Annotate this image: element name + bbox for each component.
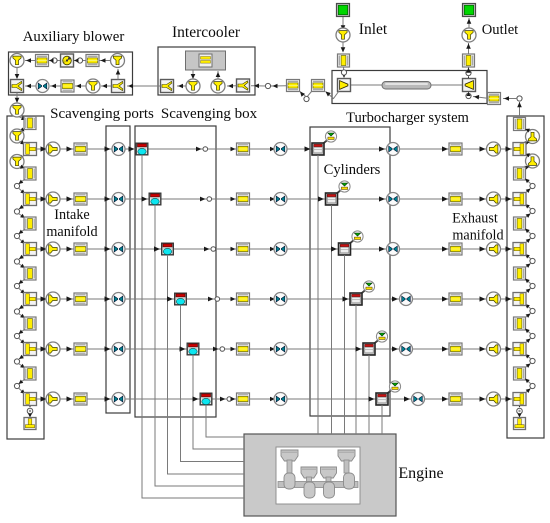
row4 exhaust runner tee <box>513 293 526 306</box>
row4 arrow into cylinder <box>343 296 349 301</box>
row4 scavenging valve <box>175 293 187 305</box>
wire merge y161 up to component <box>525 153 531 157</box>
wire bypass valve to outlet square <box>25 84 36 89</box>
row4 arrow into exhaust runner tee <box>506 296 512 301</box>
wire inlet to ambient split <box>341 17 346 31</box>
row3 intake flowsplit circle <box>46 242 60 256</box>
label Scavenging ports <box>50 106 154 122</box>
wire row1 tee down to junction <box>19 155 26 160</box>
row3 arrow into transfer pipe <box>231 247 236 252</box>
row2 exhaust flowsplit circle <box>487 192 501 206</box>
wire row3 main flow line <box>37 248 512 250</box>
intercooler core (gray) <box>186 51 226 70</box>
wire scavenging valve 1 to engine <box>142 155 244 498</box>
wire row6 main flow line <box>37 398 512 400</box>
wire scavenging valve 4 to engine <box>181 305 245 462</box>
label Scavenging box <box>161 106 258 122</box>
label Engine <box>398 465 443 482</box>
wire boost pipe to junction <box>271 84 287 89</box>
wire junction to tee row6 <box>19 388 26 394</box>
inlet flowsplit circle <box>336 28 350 42</box>
outlet ambient boundary (green) <box>463 4 476 17</box>
row5 link break symbol <box>213 347 225 352</box>
row6 exhaust runner tee <box>513 393 526 406</box>
svg-text:Scavenging ports: Scavenging ports <box>50 106 154 122</box>
intake junction row1-b <box>14 183 19 188</box>
intake mid pipe 3 <box>24 267 36 280</box>
row4 injector link <box>360 290 366 295</box>
exhaust junction at y336 <box>530 333 535 338</box>
exhaust junction at y361 <box>530 358 535 363</box>
junction before intercooler <box>265 83 270 88</box>
row5 injector <box>376 331 387 342</box>
wire left split to intercooler outlet <box>177 84 186 89</box>
row6 arrow into exhaust pipe <box>442 396 448 401</box>
row3 link break symbol <box>204 247 216 252</box>
wire row2 tee down to junction <box>19 205 26 210</box>
row2 arrow into exhaust runner tee <box>506 196 512 201</box>
row1 arrow into exhaust pipe <box>442 146 448 151</box>
wire junction y186 up to component <box>525 179 531 185</box>
row2 exhaust pipe <box>449 193 462 205</box>
row5 exhaust flowsplit circle <box>487 342 501 356</box>
intercooler left flowsplit <box>186 79 200 93</box>
intake junction row4-b <box>14 333 19 338</box>
wire feed pipe to junction below turbine <box>473 95 488 100</box>
row6 arrow into exhaust runner tee <box>506 396 512 401</box>
label Exhaust manifold <box>452 211 503 244</box>
inlet ambient boundary (green) <box>337 4 350 17</box>
wire cylinder 6 to engine <box>381 405 383 434</box>
wire row2 main flow line <box>37 198 512 200</box>
wire junction y361 up to component <box>525 354 531 359</box>
svg-text:Engine: Engine <box>398 465 443 482</box>
row3 arrow into exhaust pipe <box>442 246 448 251</box>
svg-text:Exhaust: Exhaust <box>452 211 498 227</box>
row4 link break symbol <box>208 297 220 302</box>
exhaust junction at y236 <box>530 233 535 238</box>
wire cylinder 1 to engine <box>317 155 319 434</box>
wire split 1 to port pipe row1 <box>20 140 26 144</box>
junction between pipes <box>304 96 309 101</box>
label Auxiliary blower <box>23 29 125 45</box>
row6 intake runner tee <box>24 393 37 406</box>
aux blower outlet flowsplit (square, bottom left) <box>11 80 24 93</box>
svg-text:Auxiliary blower: Auxiliary blower <box>23 29 125 45</box>
row4 intake runner tee <box>24 293 37 306</box>
wire top-left split down to outlet square <box>15 68 20 80</box>
row3 arrow into exhaust valve <box>379 246 385 251</box>
turbocharger shaft <box>382 82 431 90</box>
wire pipe to fan link <box>83 60 86 62</box>
exhaust junction at y286 <box>530 283 535 288</box>
row4 arrow into intake valve <box>270 297 275 302</box>
row2 intake flowsplit circle <box>46 192 60 206</box>
row5 arrow into cylinder <box>356 346 362 351</box>
row6 intake pipe <box>74 393 87 405</box>
wire component y149 up to merge <box>525 141 530 145</box>
label Cylinders <box>324 162 381 178</box>
exhaust junction at y261 <box>530 258 535 263</box>
wire bypass split to bypass pipe <box>75 84 86 89</box>
row3 injector link <box>349 240 355 245</box>
row6 arrow into intake pipe <box>67 396 73 401</box>
row1 arrow into exhaust valve <box>379 146 385 151</box>
exhaust manifold pipe at y173.5 <box>514 167 526 180</box>
row3 scavenging port valve (bowtie) <box>112 243 125 256</box>
exhaust junction at y311 <box>530 308 535 313</box>
row2 arrow into exhaust pipe <box>442 196 448 201</box>
exhaust manifold top pipe <box>514 118 526 131</box>
svg-text:Outlet: Outlet <box>482 22 518 38</box>
intercooler right flowsplit <box>211 79 225 93</box>
bypass pipe <box>61 80 74 92</box>
wire component y299 up to junction <box>525 289 531 294</box>
row6 arrow into flowsplit <box>41 396 47 401</box>
row1 injector link <box>322 140 328 145</box>
label Turbocharger system <box>346 110 469 126</box>
intake manifold top pipe <box>24 117 36 130</box>
engine crank-train drawing <box>278 450 358 498</box>
svg-text:manifold: manifold <box>452 228 503 244</box>
wire aux inlet up to top right split <box>116 69 121 80</box>
wire right split up into cooler <box>216 71 221 79</box>
wire junction to intercooler inlet <box>251 84 265 89</box>
auxiliary blower fan <box>61 54 74 67</box>
junction above turbine <box>466 70 471 75</box>
row5 exhaust runner tee <box>513 343 526 356</box>
row1 transfer pipe <box>237 143 250 155</box>
row2 exhaust valve (bowtie) <box>387 193 400 206</box>
row4 intake flowsplit circle <box>46 292 60 306</box>
wire junction y386 up to component <box>525 379 531 385</box>
svg-text:Turbocharger system: Turbocharger system <box>346 110 469 126</box>
row2 arrow into flowsplit <box>41 196 47 201</box>
intake end junction <box>27 408 33 414</box>
scavenging box <box>135 126 216 417</box>
row3 exhaust flowsplit circle <box>487 242 501 256</box>
row5 arrow into flowsplit <box>41 346 47 351</box>
intake mid pipe 1 <box>24 167 36 180</box>
row2 intake runner tee <box>24 193 37 206</box>
svg-text:Cylinders: Cylinders <box>324 162 381 178</box>
row1 exhaust runner tee <box>513 143 526 156</box>
row2 arrow into transfer pipe <box>231 197 236 202</box>
outlet pipe <box>463 54 475 67</box>
aux top-left flowsplit circle <box>10 54 24 68</box>
wire scavenging valve 3 to engine <box>168 255 245 474</box>
wire exhaust manifold up to junction <box>517 102 522 116</box>
wire mid pipe 5 down to junction <box>19 379 26 384</box>
exhaust junction at y211 <box>530 208 535 213</box>
row6 injector <box>389 381 400 392</box>
row6 transfer pipe <box>237 393 250 405</box>
wire compressor shaft to turbine <box>351 84 463 86</box>
row1 arrow into scavenging port valve <box>105 146 111 151</box>
row1 arrow into transfer pipe <box>231 147 236 152</box>
row1 intake pipe <box>74 143 87 155</box>
row5 arrow into exhaust flowsplit <box>480 346 486 351</box>
row5 arrow into exhaust valve <box>392 346 398 351</box>
row6 intake valve (bowtie) <box>274 393 287 406</box>
wire row4 main flow line <box>37 298 512 300</box>
intake junction row3-b <box>14 283 19 288</box>
wire end junction to exhaust end pipe <box>518 414 522 418</box>
wire junction to tee row5 <box>19 338 26 344</box>
row3 cylinder C3 <box>339 243 351 255</box>
row5 arrow into intake valve <box>270 347 275 352</box>
wire junction to tee row4 <box>19 288 26 294</box>
row6 arrow into exhaust valve <box>404 396 410 401</box>
row3 exhaust pipe <box>449 243 462 255</box>
row5 arrow into scavenging port valve <box>105 346 111 351</box>
wire component y273.5 up to junction <box>525 264 531 269</box>
wire junction y236 up to component <box>525 229 531 235</box>
intake junction row2-b <box>14 233 19 238</box>
boost pipe <box>287 80 300 92</box>
row2 arrow into scavenging port valve <box>105 196 111 201</box>
wire tee row6 down to end junction <box>28 404 32 408</box>
row3 scavenging valve <box>162 243 174 255</box>
wire scavenging valve 5 to engine <box>193 355 244 449</box>
wire feed split to first manifold pipe <box>19 116 27 120</box>
wire junction to fan <box>74 58 79 62</box>
blower outlet pipe <box>86 55 99 67</box>
row2 cylinder C2 <box>326 193 338 205</box>
row2 arrow into scavenging valve <box>142 196 148 201</box>
wire intercooler inlet to right split <box>227 84 237 89</box>
row6 scavenging port valve (bowtie) <box>112 393 125 406</box>
intake junction row2-a <box>14 209 19 214</box>
row1 link break symbol <box>196 147 208 152</box>
wire cylinder 3 to engine <box>344 255 346 434</box>
blower inlet pipe <box>36 55 49 67</box>
wire junction to mid pipe 3 <box>19 264 26 269</box>
row4 exhaust flowsplit circle <box>487 292 501 306</box>
row4 transfer pipe <box>237 293 250 305</box>
wire component y399 up to junction <box>525 389 531 394</box>
wire component y223.5 up to junction <box>525 214 531 219</box>
wire junction to mid pipe 4 <box>19 314 26 319</box>
wire component y199 up to junction <box>525 189 531 194</box>
label Inlet <box>359 21 388 38</box>
row5 intake runner tee <box>24 343 37 356</box>
row3 intake valve (bowtie) <box>274 243 287 256</box>
row3 transfer pipe <box>237 243 250 255</box>
row3 arrow into exhaust runner tee <box>506 246 512 251</box>
wire row5 main flow line <box>37 348 512 350</box>
row6 intake flowsplit circle <box>46 392 60 406</box>
intake mid pipe 4 <box>24 317 36 330</box>
scavenging ports box <box>106 126 130 413</box>
row6 arrow into transfer pipe <box>231 397 236 402</box>
row1 scavenging port valve (bowtie) <box>112 143 125 156</box>
row4 arrow into intake pipe <box>67 296 73 301</box>
intake manifold end pipe <box>24 418 36 430</box>
intake junction row3-a <box>14 259 19 264</box>
wire junction y311 up to component <box>525 304 531 309</box>
wire top-right split to blower pipe <box>100 58 111 63</box>
wire mid pipe 3 down to junction <box>19 279 26 284</box>
row1 arrow into cylinder <box>305 146 311 151</box>
row3 arrow into scavenging valve <box>154 246 160 251</box>
bypass valve (bowtie) <box>36 80 49 93</box>
svg-text:Scavenging box: Scavenging box <box>161 106 258 122</box>
intake mid pipe 2 <box>24 217 36 230</box>
svg-text:manifold: manifold <box>46 224 97 240</box>
wire row3 tee down to junction <box>19 255 26 260</box>
bypass flowsplit circle <box>86 79 100 93</box>
exhaust merge flowsplit at y161 <box>526 154 540 168</box>
wire cylinder 4 to engine <box>355 305 357 434</box>
row1 arrow into exhaust runner tee <box>506 146 512 151</box>
row2 intake pipe <box>74 193 87 205</box>
row1 intake valve (bowtie) <box>274 143 287 156</box>
aux top-right flowsplit circle <box>111 54 125 68</box>
row3 arrow into scavenging port valve <box>105 246 111 251</box>
wire mid pipe 4 down to junction <box>19 329 26 334</box>
intercooler outlet flowsplit (square) <box>161 80 174 93</box>
wire scavenging valve 6 to engine <box>206 405 244 437</box>
wire cylinder 2 to engine <box>331 205 333 434</box>
wire junction to outlet pipe <box>466 67 471 73</box>
label Intake manifold <box>46 207 97 240</box>
row4 cylinder C4 <box>350 293 362 305</box>
turbine feed pipe <box>488 93 501 105</box>
wire aux outlet down to manifold split <box>15 93 20 104</box>
row6 arrow into cylinder <box>369 396 375 401</box>
row3 intake runner tee <box>24 243 37 256</box>
exhaust manifold pipe at y223.5 <box>514 217 526 230</box>
row6 arrow into scavenging valve <box>193 396 199 401</box>
row6 arrow into scavenging port valve <box>105 396 111 401</box>
row4 scavenging port valve (bowtie) <box>112 293 125 306</box>
exhaust junction at y186 <box>530 183 535 188</box>
wire outlet split to outlet boundary <box>467 18 472 28</box>
compressor <box>338 79 351 92</box>
wire row5 tee down to junction <box>19 355 26 360</box>
row6 cylinder C6 <box>376 393 388 405</box>
wire compressor to pipe (V link) <box>326 91 340 99</box>
row5 cylinder C5 <box>363 343 375 355</box>
wire inlet split to inlet pipe <box>341 42 346 53</box>
row2 arrow into cylinder <box>318 196 324 201</box>
wire junction y336 up to component <box>525 329 531 335</box>
wire junction to turbine feed pipe <box>503 96 517 101</box>
svg-text:Inlet: Inlet <box>359 21 388 38</box>
junction above exhaust manifold <box>517 96 522 101</box>
wire component y249 up to junction <box>525 239 531 244</box>
wire end junction to end pipe <box>28 414 32 418</box>
row6 link break symbol <box>220 397 232 402</box>
wire junction to blower inlet pipe <box>49 58 54 62</box>
wire bypass: inlet square to bypass split <box>101 84 112 89</box>
row1 injector <box>325 131 336 142</box>
row4 arrow into flowsplit <box>41 296 47 301</box>
intercooler enclosure box <box>158 47 255 95</box>
wire junction y286 up to component <box>525 279 531 285</box>
intercooler inlet flowsplit (square) <box>237 79 250 92</box>
wire junction to mid pipe 2 <box>19 214 26 219</box>
row1 exhaust pipe <box>449 143 462 155</box>
wire component y349 up to junction <box>525 339 531 344</box>
junction right of fan <box>77 58 82 63</box>
aux blower inlet flowsplit (square, bottom right) <box>112 80 125 93</box>
row6 exhaust pipe <box>449 393 462 405</box>
row3 injector <box>352 231 363 242</box>
exhaust manifold pipe at y323.5 <box>514 317 526 330</box>
exhaust end junction <box>517 408 523 414</box>
label Outlet <box>482 22 518 38</box>
row5 arrow into exhaust runner tee <box>506 346 512 351</box>
intake split circle row1-a <box>10 155 24 169</box>
row3 arrow into exhaust flowsplit <box>480 246 486 251</box>
wire junction up into turbine <box>467 92 471 96</box>
outlet flowsplit circle <box>462 28 476 42</box>
row4 arrow into exhaust flowsplit <box>480 296 486 301</box>
row6 arrow into exhaust flowsplit <box>480 396 486 401</box>
row1 arrow into scavenging valve <box>129 146 135 151</box>
row2 arrow into exhaust valve <box>379 196 385 201</box>
wire component y323.5 up to junction <box>525 314 531 319</box>
wire component y373.5 up to junction <box>525 364 531 369</box>
engine block box <box>244 434 396 516</box>
row4 arrow into exhaust pipe <box>442 296 448 301</box>
row6 exhaust valve (bowtie) <box>412 393 425 406</box>
row2 scavenging port valve (bowtie) <box>112 193 125 206</box>
row5 injector link <box>373 340 379 345</box>
junction left of fan <box>52 58 57 63</box>
wire mid pipe 2 down to junction <box>19 229 26 234</box>
row4 arrow into transfer pipe <box>231 297 236 302</box>
compressor outlet pipe <box>312 80 325 92</box>
row4 injector <box>363 281 374 292</box>
row5 intake flowsplit circle <box>46 342 60 356</box>
intake junction row5-a <box>14 359 19 364</box>
exhaust merge flowsplit at y136.5 <box>526 130 540 144</box>
row5 exhaust valve (bowtie) <box>400 343 413 356</box>
row1 intake runner tee <box>24 143 37 156</box>
wire junction y261 up to component <box>525 254 531 259</box>
row4 arrow into scavenging port valve <box>105 296 111 301</box>
row4 arrow into scavenging valve <box>167 296 173 301</box>
wire junction y211 up to component <box>525 204 531 209</box>
wire junction to tee row2 <box>19 188 26 194</box>
exhaust manifold pipe at y373.5 <box>514 367 526 380</box>
row2 injector link <box>336 190 342 195</box>
row4 exhaust valve (bowtie) <box>400 293 413 306</box>
row3 arrow into intake pipe <box>67 246 73 251</box>
exhaust manifold end pipe <box>514 418 526 430</box>
wire cooler down to left flowsplit <box>191 70 196 79</box>
wire inlet pipe to compressor <box>342 67 347 78</box>
svg-text:Intake: Intake <box>54 207 89 223</box>
row5 scavenging port valve (bowtie) <box>112 343 125 356</box>
row2 transfer pipe <box>237 193 250 205</box>
row2 arrow into exhaust flowsplit <box>480 196 486 201</box>
wire junction to pipe V link <box>300 92 306 97</box>
wire mid pipe 1 down to junction <box>19 179 26 184</box>
row5 intake valve (bowtie) <box>274 343 287 356</box>
row3 intake pipe <box>74 243 87 255</box>
wire bypass pipe to bypass valve <box>50 84 61 89</box>
row5 intake pipe <box>74 343 87 355</box>
row2 exhaust runner tee <box>513 193 526 206</box>
intake feed flowsplit circle <box>10 103 24 117</box>
row3 arrow into flowsplit <box>41 246 47 251</box>
wire merge y136.5 up to component <box>525 129 531 133</box>
wire scavenging valve 2 to engine <box>155 205 244 486</box>
